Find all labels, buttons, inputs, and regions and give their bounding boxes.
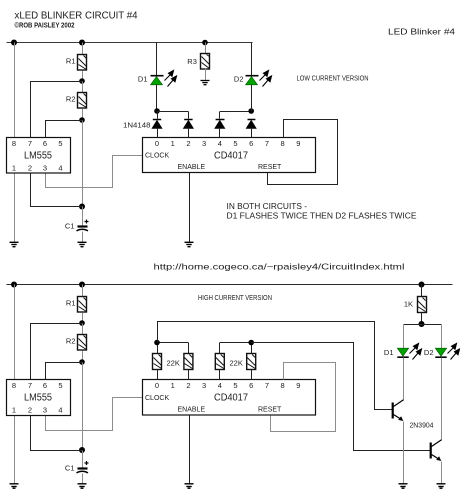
svg-text:4: 4 (58, 406, 62, 415)
junction dot pair 2 (248, 340, 254, 346)
svg-text:5: 5 (233, 381, 237, 390)
wire junction to R2 (82, 82, 84, 93)
ground left 555 2 (10, 484, 19, 488)
svg-text:7: 7 (265, 139, 269, 148)
svg-text:3: 3 (202, 381, 206, 390)
svg-text:8: 8 (281, 139, 285, 148)
junction dot R2 bottom (79, 117, 85, 123)
wire stub diode b (188, 112, 190, 119)
svg-text:HIGH CURRENT VERSION: HIGH CURRENT VERSION (198, 295, 272, 302)
wire rail to LED D1 (156, 43, 158, 76)
svg-text:CD4017: CD4017 (214, 393, 248, 404)
ground enable (185, 242, 194, 246)
wire pin 3 to clock 2 (46, 398, 143, 431)
IC CD4017 U2 (143, 138, 316, 173)
wire pin 3 to clock (46, 156, 143, 188)
ground C1 (78, 242, 87, 246)
wire pair 2 to Q2 base (251, 343, 430, 451)
wire capacitor to ground (82, 232, 84, 243)
svg-text:R2: R2 (66, 337, 76, 346)
wire LED D1 to node (156, 85, 158, 112)
wire R2 to junction 2b (82, 351, 84, 363)
wire R2 to junction 2 (82, 109, 84, 121)
junction dot R2 bottom 2 (79, 359, 85, 365)
wire bottom supply rail (7, 284, 453, 286)
diode 1N4148 a (151, 120, 162, 138)
svg-text:6: 6 (43, 381, 47, 390)
svg-text:IN BOTH CIRCUITS -: IN BOTH CIRCUITS - (227, 202, 308, 211)
svg-text:LOW CURRENT VERSION: LOW CURRENT VERSION (297, 76, 369, 83)
wire C1 node to capacitor (82, 207, 84, 226)
wire junction to R2 2 (82, 324, 84, 335)
wire stub diode c (219, 112, 221, 119)
resistor R1 2 (78, 297, 87, 313)
svg-text:1N4148: 1N4148 (123, 121, 151, 130)
wire R1 to junction 2 (82, 313, 84, 324)
svg-text:C1: C1 (65, 464, 75, 473)
svg-text:22K: 22K (230, 359, 243, 368)
wire enable to ground (189, 173, 191, 243)
ground C1 2 (78, 484, 87, 488)
wire 22K pair 2 join (220, 342, 251, 344)
svg-text:D2: D2 (234, 75, 244, 84)
svg-text:1K: 1K (404, 300, 413, 309)
svg-text:22K: 22K (167, 359, 180, 368)
svg-text:2: 2 (186, 381, 190, 390)
svg-text:RESET: RESET (258, 164, 282, 171)
wire capacitor to ground 2 (82, 474, 84, 484)
svg-text:4: 4 (218, 139, 222, 148)
LED D1 bottom (397, 348, 408, 357)
svg-text:R3: R3 (187, 57, 197, 66)
wire branch to LED D2b (441, 325, 443, 349)
ground Q2 (437, 484, 446, 488)
IC LM555 U3 (7, 380, 71, 416)
diode 1N4148 d (246, 120, 257, 138)
junction dot R1 top 2 (79, 282, 85, 288)
wire junction down to C1 node (82, 121, 84, 207)
capacitor C1 2 (77, 461, 89, 473)
resistor R 22K d (247, 343, 256, 380)
junction dot diode pair 1 (154, 108, 160, 114)
wire left rail to pin 8 (14, 43, 16, 138)
LED D2 arrows (260, 71, 272, 87)
svg-text:D1 FLASHES TWICE THEN D2 FLASH: D1 FLASHES TWICE THEN D2 FLASHES TWICE (227, 212, 417, 221)
svg-text:©ROB PAISLEY 2002: ©ROB PAISLEY 2002 (15, 22, 75, 30)
wire Q2 emitter to ground (441, 462, 443, 484)
svg-text:7: 7 (28, 139, 32, 148)
junction dot pair 1 (154, 340, 160, 346)
junction dot R3 top (202, 40, 208, 46)
svg-text:D1: D1 (138, 75, 148, 84)
svg-text:1: 1 (171, 381, 175, 390)
LED D2 (246, 76, 259, 85)
junction dot left rail 2 (11, 282, 17, 288)
svg-text:4: 4 (58, 164, 62, 173)
svg-text:R2: R2 (66, 95, 76, 104)
transistor Q1 (393, 400, 404, 421)
wire top supply rail (7, 42, 253, 44)
svg-text:5: 5 (233, 139, 237, 148)
svg-text:D1: D1 (384, 348, 394, 357)
LED D1 bottom arrows (410, 344, 422, 360)
svg-text:LED Blinker #4: LED Blinker #4 (388, 26, 455, 36)
wire diode pair 1 (158, 111, 189, 113)
junction dot diode pair 2 (248, 108, 254, 114)
svg-text:R1: R1 (66, 57, 76, 66)
svg-text:CD4017: CD4017 (214, 151, 248, 162)
svg-text:5: 5 (58, 139, 62, 148)
resistor R3 (201, 54, 210, 70)
svg-text:1: 1 (171, 139, 175, 148)
wire junction to pin 6 2 (46, 363, 83, 380)
svg-text:4: 4 (218, 381, 222, 390)
svg-text:CLOCK: CLOCK (145, 395, 169, 402)
resistor R 22K b (184, 343, 193, 380)
svg-text:D2: D2 (424, 348, 434, 357)
svg-text:8: 8 (12, 139, 16, 148)
wire pin 2 to C1 node 2 (31, 416, 83, 451)
svg-text:6: 6 (43, 139, 47, 148)
svg-text:9: 9 (296, 381, 300, 390)
wire pin 8 to reset loop 2 (271, 363, 336, 432)
svg-text:2: 2 (28, 406, 32, 415)
wire R1 to junction (82, 71, 84, 82)
svg-text:7: 7 (265, 381, 269, 390)
svg-text:3: 3 (43, 406, 47, 415)
diode 1N4148 c (214, 120, 225, 138)
svg-text:3: 3 (43, 164, 47, 173)
junction dot left rail (11, 40, 17, 46)
wire pin 8 to reset loop (268, 120, 338, 185)
svg-text:7: 7 (28, 381, 32, 390)
svg-text:5: 5 (58, 381, 62, 390)
wire pair 1 to Q1 base (158, 322, 393, 410)
svg-text:0: 0 (155, 381, 159, 390)
wire rail to LED D2 (251, 43, 253, 76)
resistor R2 (78, 93, 87, 109)
svg-text:xLED BLINKER CIRCUIT #4: xLED BLINKER CIRCUIT #4 (15, 9, 138, 21)
wire Q1 emitter to ground (403, 422, 405, 484)
svg-text:LM555: LM555 (24, 151, 52, 162)
junction dot R1/R2 2 (79, 320, 85, 326)
svg-text:0: 0 (155, 139, 159, 148)
IC CD4017 U4 (143, 380, 316, 416)
svg-text:8: 8 (12, 381, 16, 390)
wire junction to pin 7 2 (31, 324, 83, 380)
svg-text:1: 1 (12, 164, 16, 173)
ground R3 (201, 81, 210, 85)
svg-text:3: 3 (202, 139, 206, 148)
svg-text:2: 2 (186, 139, 190, 148)
wire LED D2 to node (251, 85, 253, 112)
junction dot LED node (419, 321, 425, 327)
wire LED branch (404, 324, 442, 326)
LED D2 bottom arrows (448, 344, 460, 360)
wire rail to R1 2 (82, 285, 84, 297)
resistor 1K (418, 297, 427, 313)
svg-text:R1: R1 (66, 299, 76, 308)
svg-text:2: 2 (28, 164, 32, 173)
wire pin 1 to ground (14, 174, 16, 243)
svg-text:9: 9 (296, 139, 300, 148)
svg-text:http://home.cogeco.ca/~rpaisle: http://home.cogeco.ca/~rpaisley4/Circuit… (154, 262, 405, 272)
svg-text:RESET: RESET (258, 407, 282, 414)
wire junction down to C1 node 2 (82, 363, 84, 451)
wire junction to pin 7 (31, 82, 83, 138)
wire pin 1 to ground 2 (14, 416, 16, 484)
op IC LM555 U1 (7, 138, 71, 174)
junction dot C1 node 2 (79, 447, 85, 453)
junction dot C1 node (79, 204, 85, 210)
svg-text:CLOCK: CLOCK (145, 153, 169, 160)
resistor R2 2 (78, 335, 87, 351)
wire branch to LED D1b (403, 325, 405, 349)
wire left rail 2 to pin 8 (14, 285, 16, 380)
svg-text:C1: C1 (65, 222, 75, 231)
ground enable 2 (185, 484, 194, 488)
wire rail to 1K (421, 285, 423, 297)
resistor R 22K a (153, 343, 162, 380)
svg-text:1: 1 (12, 406, 16, 415)
wire pin 2 to C1 node (31, 174, 83, 207)
wire rail to R3 (205, 43, 207, 54)
capacitor C1 (77, 220, 89, 231)
wire 1K to LED node (421, 313, 423, 325)
svg-text:ENABLE: ENABLE (178, 164, 206, 171)
wire rail to R1 (82, 43, 84, 55)
wire R3 to ground (205, 69, 207, 81)
wire C1 node to capacitor 2 (82, 451, 84, 468)
LED D1 (151, 76, 164, 85)
diode 1N4148 b (183, 120, 194, 138)
LED D2 bottom (435, 348, 446, 357)
wire junction to pin 6 (46, 121, 83, 138)
svg-text:6: 6 (249, 381, 253, 390)
junction dot R1 top (79, 40, 85, 46)
junction dot R1/R2 (79, 78, 85, 84)
svg-text:LM555: LM555 (24, 393, 52, 404)
ground Q1 (399, 484, 408, 488)
svg-text:6: 6 (249, 139, 253, 148)
svg-text:ENABLE: ENABLE (178, 407, 206, 414)
resistor R1 (78, 55, 87, 71)
svg-text:2N3904: 2N3904 (410, 421, 434, 430)
transistor Q2 (431, 440, 442, 461)
wire 22K pair 1 join (158, 342, 189, 344)
wire diode pair 2 (220, 111, 251, 113)
LED D1 arrows (165, 71, 177, 87)
resistor R 22K c (215, 343, 224, 380)
wire LED D1b to Q1 collector (403, 358, 405, 401)
wire LED D2b to Q2 collector (441, 358, 443, 441)
wire stub diode a (157, 112, 159, 119)
junction dot 1K top (419, 282, 425, 288)
ground left 555 (10, 242, 19, 246)
wire enable to ground 2 (189, 416, 191, 484)
svg-text:8: 8 (281, 381, 285, 390)
